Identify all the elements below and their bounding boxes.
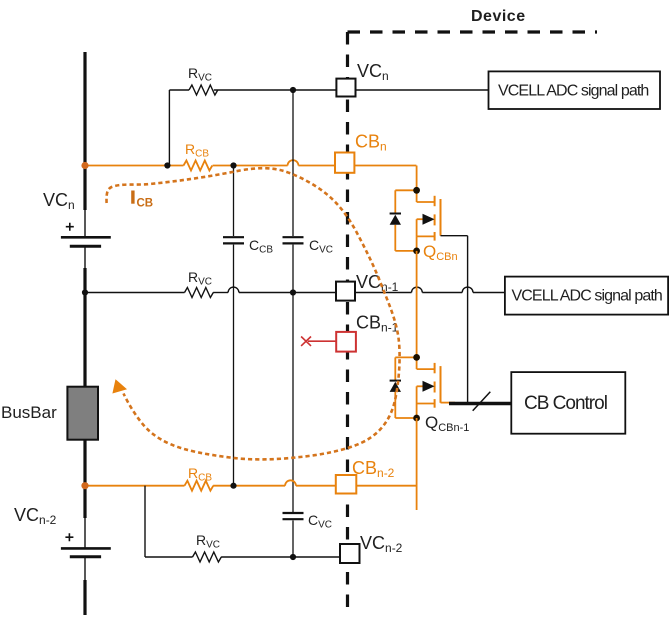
- svg-text:VCELL ADC signal path: VCELL ADC signal path: [498, 83, 648, 100]
- node dot row1/CVC: [290, 87, 296, 93]
- node dot rail VCn-1: [82, 289, 88, 295]
- node dot QCBn source: [413, 248, 420, 255]
- node dot QCBn drain: [413, 187, 420, 194]
- svg-text:RVC: RVC: [188, 65, 212, 84]
- svg-text:RVC: RVC: [196, 532, 220, 551]
- svg-text:VCn: VCn: [357, 61, 389, 83]
- node dot CVC row3: [290, 289, 296, 295]
- box VCELL ADC signal path (middle): [505, 277, 668, 315]
- battery stack rail: [83, 52, 86, 615]
- node dot CVC bottom row: [290, 554, 296, 560]
- svg-text:CBn: CBn: [355, 132, 387, 154]
- node dot CCB top: [230, 162, 236, 168]
- battery cell VCn: [61, 223, 111, 247]
- svg-text:VCELL ADC signal path: VCELL ADC signal path: [512, 288, 662, 305]
- capacitor CVC (top): [283, 90, 304, 293]
- svg-text:VCn-1: VCn-1: [356, 272, 399, 294]
- wire QCBn-1 source to CBn-2 row (orange, with stub): [416, 418, 418, 510]
- svg-text:RCB: RCB: [188, 465, 212, 484]
- transistor QCBn-1: [417, 357, 441, 418]
- box VCELL ADC signal path (top): [489, 71, 661, 109]
- svg-text:CVC: CVC: [308, 512, 332, 531]
- bus slash mark: [473, 392, 491, 411]
- BusBar: [67, 387, 98, 440]
- resistor RCB (bottom, orange): [185, 481, 214, 491]
- wire QCBn-1 gate link (orange): [441, 402, 456, 404]
- resistor RVC (middle): [185, 288, 214, 298]
- transistor QCBn: [417, 190, 441, 251]
- node dot CCB bottom: [230, 483, 236, 489]
- node dot QCBn-1 drain: [413, 354, 420, 361]
- body diode of QCBn: [390, 190, 417, 251]
- svg-text:CVC: CVC: [309, 237, 333, 256]
- svg-text:VCn-2: VCn-2: [360, 533, 403, 555]
- device boundary dashed outline: [348, 32, 598, 609]
- resistor RVC (top): [189, 85, 218, 95]
- capacitor CCB: [223, 166, 244, 486]
- svg-text:QCBn: QCBn: [423, 242, 458, 263]
- node dot rail CBn-2 (orange): [81, 482, 88, 489]
- node dot RVC link: [164, 162, 170, 168]
- box CB Control: [511, 372, 625, 434]
- svg-text:QCBn-1: QCBn-1: [425, 413, 469, 434]
- label ICB: [131, 191, 134, 204]
- wire QCBn source to QCBn-1 drain (orange): [416, 251, 418, 358]
- wire QCBn gate to control bus: [441, 236, 468, 404]
- wire row VCn-2: [145, 556, 340, 558]
- ICB arrowhead: [112, 379, 127, 393]
- svg-text:Device: Device: [471, 8, 526, 25]
- svg-text:VCn: VCn: [43, 190, 75, 212]
- terminal square VCn-1: [336, 282, 355, 301]
- terminal square CBn (orange): [335, 153, 354, 173]
- node dot rail CBn (orange): [81, 162, 88, 169]
- svg-text:CBn-2: CBn-2: [352, 458, 395, 480]
- wire CBn to QCBn drain (orange): [416, 166, 418, 191]
- resistor RVC (bottom): [193, 552, 222, 562]
- body diode of QCBn-1: [390, 357, 417, 418]
- terminal square CBn-1 (red, unused): [336, 332, 356, 352]
- ICB current loop (dotted): [106, 168, 399, 459]
- terminal square VCn-2: [340, 544, 360, 563]
- svg-text:RCB: RCB: [185, 141, 209, 160]
- resistor RCB (top, orange): [184, 161, 213, 171]
- svg-text:BusBar: BusBar: [1, 403, 57, 422]
- wire row VCn-1: [85, 287, 505, 292]
- wire CB control bus (thick): [449, 402, 512, 405]
- wire row CBn (orange): [85, 160, 416, 165]
- wire row VCn (top RVC row): [169, 89, 488, 91]
- svg-text:CBn-1: CBn-1: [356, 313, 399, 335]
- wire vertical RVC-to-RCB link: [168, 90, 170, 166]
- terminal square CBn-2 (orange): [336, 475, 357, 494]
- wire row CBn-2 (orange): [85, 480, 417, 485]
- svg-text:VCn-2: VCn-2: [14, 505, 57, 527]
- red X mark and wire (CBn-1 unused): [301, 337, 336, 346]
- svg-text:CB Control: CB Control: [524, 393, 607, 414]
- wire vertical CBn-2 to RVC bottom: [144, 486, 146, 557]
- node dot QCBn-1 source: [413, 415, 420, 422]
- terminal square VCn: [336, 79, 355, 97]
- capacitor CVC (bottom): [283, 293, 304, 558]
- svg-text:CB: CB: [137, 198, 154, 210]
- battery cell VCn-2: [61, 533, 111, 557]
- svg-text:CCB: CCB: [249, 237, 273, 256]
- svg-text:RVC: RVC: [188, 269, 212, 288]
